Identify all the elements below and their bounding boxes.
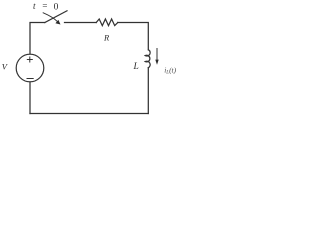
voltage source V circle	[16, 54, 44, 82]
svg-text:t: t	[33, 1, 36, 11]
inductor current arrow iL(t)	[155, 49, 158, 65]
switch blade (open, t=0)	[45, 11, 67, 23]
svg-text:V: V	[2, 61, 9, 71]
voltage source minus sign	[27, 78, 33, 80]
wire left vertical top (source to top-left corner)	[30, 23, 45, 55]
switch closing arrow	[43, 13, 60, 25]
wire inductor to bottom-right corner	[147, 68, 149, 114]
inductor L coil (3 cusped loops)	[145, 50, 150, 68]
svg-text:L: L	[133, 62, 139, 72]
svg-text:0: 0	[54, 2, 59, 12]
wire resistor to top-right corner, down to inductor	[118, 23, 149, 50]
voltage source plus sign	[27, 57, 32, 62]
label t = 0	[33, 1, 59, 13]
svg-text:iL(t): iL(t)	[164, 65, 176, 75]
svg-text:=: =	[42, 1, 48, 11]
wire switch right contact to resistor	[65, 22, 97, 24]
svg-text:R: R	[103, 33, 110, 43]
wire source bottom to bottom-left corner	[29, 82, 31, 114]
resistor R zigzag	[96, 19, 118, 26]
bottom wire	[30, 113, 148, 115]
